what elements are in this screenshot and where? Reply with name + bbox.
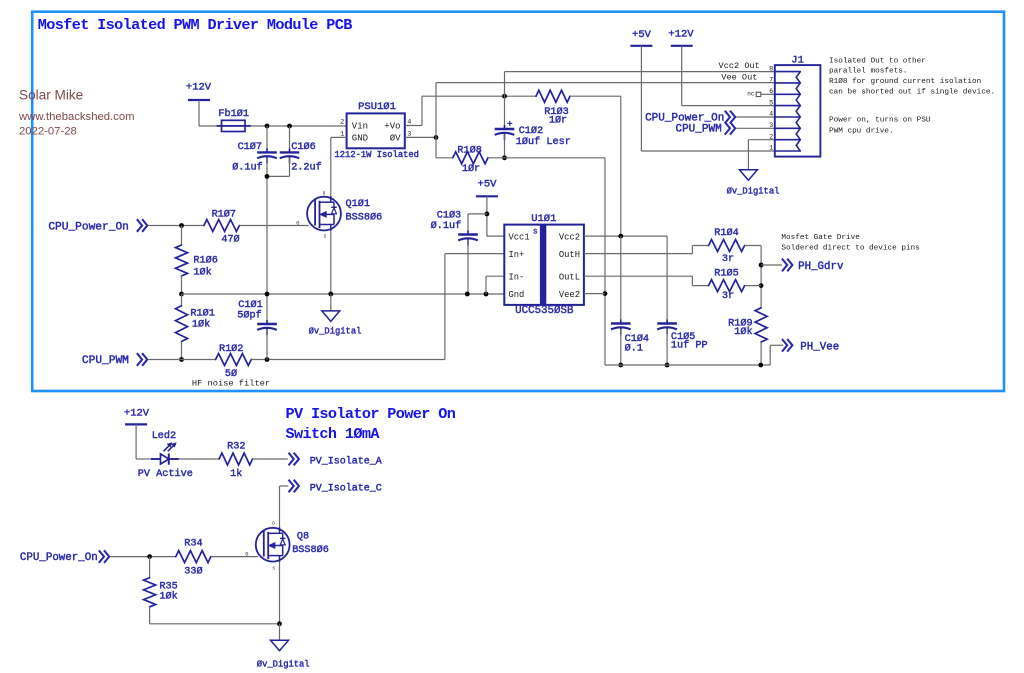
svg-text:+Vo: +Vo bbox=[384, 122, 400, 132]
svg-text:1uf PP: 1uf PP bbox=[671, 339, 708, 351]
node Q101 source junction bbox=[328, 292, 333, 297]
node R105 output junction bbox=[759, 283, 764, 288]
svg-text:1Øk: 1Øk bbox=[734, 326, 752, 338]
node R34/R35 junction bbox=[147, 554, 152, 559]
wire Vee bottom rail bbox=[605, 364, 770, 366]
wire In+ riser bbox=[444, 254, 446, 360]
svg-text:GND: GND bbox=[352, 133, 368, 143]
svg-text:Isolated Out to other: Isolated Out to other bbox=[829, 57, 926, 65]
wire R103 to Vcc2 bbox=[570, 95, 621, 97]
wire CPU_PWM to R102 bbox=[149, 359, 216, 361]
svg-text:3r: 3r bbox=[722, 254, 734, 265]
wire R104 to gate node bbox=[745, 245, 762, 247]
svg-text:CPU_Power_On: CPU_Power_On bbox=[645, 112, 724, 124]
ground 0v_Digital (Q101) bbox=[322, 311, 340, 322]
wire Q8 ground stem bbox=[279, 624, 281, 640]
svg-text:+12V: +12V bbox=[668, 29, 694, 41]
svg-text:can be shorted out if single d: can be shorted out if single device. bbox=[829, 89, 995, 97]
svg-text:D: D bbox=[323, 191, 326, 197]
wire CPU_Power_On to R34 bbox=[110, 556, 175, 558]
wire C105 drop bbox=[666, 236, 668, 323]
svg-text:CPU_PWM: CPU_PWM bbox=[82, 355, 129, 367]
svg-text:PWM cpu drive.: PWM cpu drive. bbox=[829, 127, 894, 135]
wire R105 to gate node bbox=[745, 285, 762, 287]
wire +12V to J1 pin5 bbox=[682, 105, 775, 107]
svg-text:In-: In- bbox=[509, 272, 525, 282]
node C107 top junction bbox=[265, 124, 270, 129]
svg-text:5Øpf: 5Øpf bbox=[237, 310, 261, 322]
node cap bottom junction bbox=[265, 174, 270, 179]
wire Vee2 to rail bbox=[584, 293, 605, 295]
svg-text:R1Ø4: R1Ø4 bbox=[714, 227, 738, 239]
svg-text:8: 8 bbox=[769, 65, 773, 73]
wire Vee Out riser bbox=[435, 83, 437, 158]
wire R32 to PV_Isolate_A bbox=[253, 458, 288, 460]
wire OutL to R105 bbox=[584, 275, 693, 277]
svg-text:nc: nc bbox=[747, 91, 755, 98]
global label PH_Gdrv bbox=[761, 264, 782, 266]
svg-text:Ø.1uf: Ø.1uf bbox=[232, 162, 263, 174]
wire In+ to U101 bbox=[445, 253, 504, 255]
svg-text:G: G bbox=[296, 221, 299, 227]
svg-text:Switch 1ØmA: Switch 1ØmA bbox=[286, 425, 381, 443]
wire CPU_Power_On to R107 bbox=[149, 225, 204, 227]
svg-text:R32: R32 bbox=[227, 441, 245, 452]
svg-text:S: S bbox=[533, 229, 537, 237]
node R107/R106 junction bbox=[179, 223, 184, 228]
svg-text:Fb1Ø1: Fb1Ø1 bbox=[218, 108, 249, 120]
svg-text:1Øuf Lesr: 1Øuf Lesr bbox=[516, 136, 571, 148]
svg-text:4: 4 bbox=[769, 111, 773, 119]
svg-text:G: G bbox=[245, 552, 248, 558]
wire PV_Isolate_C to Q8 drain bbox=[280, 485, 289, 487]
svg-text:www.thebackshed.com: www.thebackshed.com bbox=[18, 111, 135, 123]
node C103 bottom junction bbox=[465, 292, 470, 297]
svg-text:3r: 3r bbox=[722, 291, 734, 302]
wire R107 to Q101 gate bbox=[239, 225, 308, 227]
svg-text:1Ør: 1Ør bbox=[549, 115, 567, 127]
svg-text:C1Ø3: C1Ø3 bbox=[437, 210, 461, 222]
ground 0v_Digital (J1) bbox=[739, 170, 757, 181]
wire Q101 source to ground line bbox=[330, 230, 332, 294]
svg-text:47Ø: 47Ø bbox=[221, 233, 239, 245]
svg-text:C1Ø1: C1Ø1 bbox=[238, 299, 262, 311]
node Vee2 junction bbox=[603, 291, 608, 296]
svg-text:1Ør: 1Ør bbox=[462, 163, 480, 175]
wire R109 to Vee rail bbox=[760, 342, 762, 365]
svg-text:PV Isolator Power On: PV Isolator Power On bbox=[286, 405, 456, 423]
node gnd-line left junction bbox=[179, 292, 184, 297]
svg-text:1Øk: 1Øk bbox=[193, 267, 211, 279]
svg-text:BSS8Ø6: BSS8Ø6 bbox=[292, 544, 329, 556]
wire In- tie to gnd bbox=[486, 275, 504, 277]
svg-text:parallel mosfets.: parallel mosfets. bbox=[829, 68, 907, 76]
svg-text:R1Ø7: R1Ø7 bbox=[212, 208, 236, 220]
svg-text:S: S bbox=[272, 565, 275, 571]
node Vcc2/C104 junction bbox=[618, 234, 623, 239]
svg-text:1212-1W Isolated: 1212-1W Isolated bbox=[335, 150, 419, 160]
node +5V/C103 junction bbox=[485, 212, 490, 217]
svg-text:ØV: ØV bbox=[390, 133, 401, 143]
svg-text:Vcc2: Vcc2 bbox=[559, 232, 580, 242]
svg-text:6: 6 bbox=[769, 88, 773, 96]
node R109 bottom junction bbox=[758, 363, 763, 368]
svg-text:1Øk: 1Øk bbox=[192, 319, 210, 331]
wire Led2 to R32 bbox=[179, 458, 219, 460]
wire R108 to Vee rail bbox=[488, 157, 605, 159]
svg-text:Vee Out: Vee Out bbox=[721, 72, 757, 82]
svg-text:OutH: OutH bbox=[559, 250, 580, 260]
svg-text:1Øk: 1Øk bbox=[159, 590, 177, 602]
node pin3 junction bbox=[434, 135, 439, 140]
svg-text:R1Ø6: R1Ø6 bbox=[193, 255, 217, 267]
svg-text:+12V: +12V bbox=[186, 81, 212, 93]
wire J1 pin2 to ground bbox=[748, 139, 774, 141]
svg-text:1: 1 bbox=[769, 145, 773, 153]
svg-text:Gnd: Gnd bbox=[509, 290, 525, 300]
wire PSU +Vo to Vcc2-out net bbox=[405, 125, 422, 127]
wire PSU GND to Q101 drain bbox=[331, 136, 347, 138]
svg-text:2: 2 bbox=[769, 133, 773, 141]
svg-text:R34: R34 bbox=[184, 539, 202, 550]
svg-text:OutL: OutL bbox=[559, 272, 580, 282]
ground 0v_Digital (Q8) bbox=[271, 640, 289, 651]
svg-text:Power on, turns on PSU: Power on, turns on PSU bbox=[829, 117, 931, 125]
svg-text:In+: In+ bbox=[509, 250, 525, 260]
node C101 bottom junction bbox=[265, 357, 270, 362]
node +Vo junction bbox=[502, 94, 507, 99]
wire Vcc2 Out riser bbox=[504, 72, 506, 97]
svg-text:Vin: Vin bbox=[352, 122, 368, 132]
svg-text:CPU_Power_On: CPU_Power_On bbox=[20, 552, 98, 564]
svg-text:Ø.1: Ø.1 bbox=[625, 342, 643, 354]
svg-text:7: 7 bbox=[769, 77, 773, 85]
wire R102 to In+ riser bbox=[251, 359, 445, 361]
svg-text:3: 3 bbox=[769, 122, 773, 130]
svg-text:Q1Ø1: Q1Ø1 bbox=[346, 198, 370, 210]
svg-text:R1Ø5: R1Ø5 bbox=[714, 267, 738, 279]
svg-text:R1Ø8 for ground current isolat: R1Ø8 for ground current isolation bbox=[829, 77, 981, 86]
svg-text:Øv_Digital: Øv_Digital bbox=[727, 186, 780, 196]
svg-text:PV_Isolate_C: PV_Isolate_C bbox=[310, 483, 382, 495]
wire Q8 source down bbox=[279, 562, 281, 624]
svg-text:UCC535ØSB: UCC535ØSB bbox=[515, 305, 574, 317]
svg-text:PH_Gdrv: PH_Gdrv bbox=[798, 261, 844, 273]
svg-text:Q8: Q8 bbox=[297, 531, 309, 542]
node Q8 source junction bbox=[277, 621, 282, 626]
svg-text:PV_Isolate_A: PV_Isolate_A bbox=[310, 455, 382, 467]
wire digital ground line bbox=[182, 293, 505, 295]
wire R34 to Q8 gate bbox=[211, 556, 258, 558]
global label PV_Isolate_C bbox=[289, 480, 294, 493]
svg-text:D: D bbox=[272, 521, 275, 527]
svg-text:Soldered direct to device pins: Soldered direct to device pins bbox=[781, 244, 919, 252]
wire Vcc2 line bbox=[584, 235, 667, 237]
wire Vee Out to J1 pin7 bbox=[436, 82, 775, 84]
svg-text:PV Active: PV Active bbox=[138, 468, 193, 480]
wire +5V to J1 pin1 bbox=[641, 150, 774, 152]
wire R108 net bbox=[436, 157, 453, 159]
wire +12V to PSU Vin bbox=[199, 125, 347, 127]
svg-text:Led2: Led2 bbox=[152, 430, 176, 442]
wire Vcc1 bbox=[487, 235, 504, 237]
global label PH_Vee bbox=[782, 339, 787, 352]
svg-text:+5V: +5V bbox=[632, 29, 652, 41]
svg-text:2.2uf: 2.2uf bbox=[291, 162, 322, 174]
node In- junction bbox=[484, 292, 489, 297]
svg-text:2022-07-28: 2022-07-28 bbox=[19, 125, 77, 137]
global label PV_Isolate_A bbox=[289, 453, 294, 466]
node R101 bottom junction bbox=[179, 357, 184, 362]
svg-text:C1Ø2: C1Ø2 bbox=[519, 125, 543, 137]
svg-text:Vee2: Vee2 bbox=[559, 290, 580, 300]
node C106 top junction bbox=[287, 124, 292, 129]
svg-text:Øv_Digital: Øv_Digital bbox=[257, 659, 310, 669]
svg-text:HF noise filter: HF noise filter bbox=[192, 379, 270, 389]
wire R35 bottom to source bbox=[150, 623, 280, 625]
node C102 bottom junction bbox=[502, 155, 507, 160]
svg-text:2: 2 bbox=[340, 119, 344, 127]
svg-text:Solar Mike: Solar Mike bbox=[19, 87, 83, 102]
svg-text:1k: 1k bbox=[230, 468, 242, 480]
svg-text:+12V: +12V bbox=[124, 407, 150, 419]
svg-text:5: 5 bbox=[769, 99, 773, 107]
svg-text:Øv_Digital: Øv_Digital bbox=[309, 327, 362, 337]
svg-text:Vcc1: Vcc1 bbox=[509, 232, 530, 242]
svg-text:Ø.1uf: Ø.1uf bbox=[431, 220, 462, 232]
svg-text:PSU1Ø1: PSU1Ø1 bbox=[358, 101, 396, 113]
svg-text:CPU_PWM: CPU_PWM bbox=[675, 124, 721, 136]
wire OutH to R104 bbox=[584, 253, 693, 255]
wire PSU 0V pin3 bbox=[405, 136, 436, 138]
svg-text:U1Ø1: U1Ø1 bbox=[531, 213, 556, 225]
svg-text:CPU_Power_On: CPU_Power_On bbox=[48, 222, 129, 234]
svg-text:Mosfet Gate Drive: Mosfet Gate Drive bbox=[781, 234, 860, 242]
node PH_Gdrv junction bbox=[759, 263, 764, 268]
svg-text:S: S bbox=[324, 233, 327, 239]
svg-text:33Ø: 33Ø bbox=[184, 565, 202, 577]
svg-text:Vcc2 Out: Vcc2 Out bbox=[719, 61, 760, 71]
svg-text:R1Ø1: R1Ø1 bbox=[190, 308, 214, 320]
svg-text:BSS8Ø6: BSS8Ø6 bbox=[346, 211, 383, 223]
wire Vcc2 Out to J1 pin8 bbox=[505, 71, 775, 73]
node C104 bottom junction bbox=[618, 363, 623, 368]
svg-text:PH_Vee: PH_Vee bbox=[800, 341, 839, 353]
node C101 top junction bbox=[265, 292, 270, 297]
node C105 bottom junction bbox=[665, 363, 670, 368]
wire C107/C106 bottoms bbox=[266, 158, 268, 294]
svg-text:+5V: +5V bbox=[478, 179, 498, 191]
wire Q101 ground stem bbox=[330, 294, 332, 311]
svg-text:Mosfet Isolated PWM Driver Mod: Mosfet Isolated PWM Driver Module PCB bbox=[38, 16, 352, 34]
